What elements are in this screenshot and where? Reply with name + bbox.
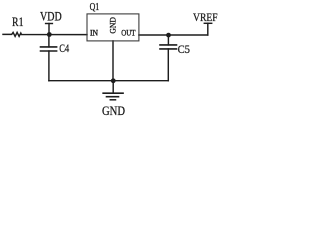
svg-text:C4: C4 <box>59 41 69 55</box>
svg-text:C5: C5 <box>178 42 190 56</box>
svg-text:R1: R1 <box>12 15 24 29</box>
svg-text:GND: GND <box>102 103 125 118</box>
svg-text:OUT: OUT <box>121 28 136 38</box>
svg-text:VREF: VREF <box>193 10 218 24</box>
svg-text:GND: GND <box>108 17 118 33</box>
svg-text:Q1: Q1 <box>90 1 100 13</box>
svg-text:IN: IN <box>90 28 99 38</box>
svg-text:VDD: VDD <box>40 10 62 24</box>
